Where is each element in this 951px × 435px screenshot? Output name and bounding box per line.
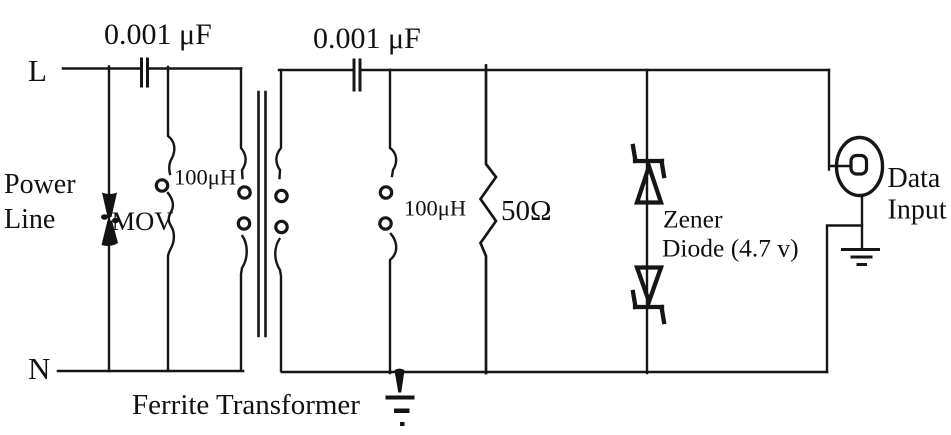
wire top-left rail left segment [63,67,140,70]
svg-text:DataInput: DataInput [888,163,947,226]
wire riser from top rail to connector [829,70,851,170]
zener diode D2 (bottom) [633,268,664,323]
svg-text:100μH: 100μH [404,196,466,221]
varistor MOV symbol [101,193,119,246]
transformer T1 secondary winding [275,70,287,371]
svg-text:N: N [28,351,50,386]
wire MOV branch [108,67,110,372]
connector J1 center contact [851,156,867,175]
transformer T1 core [259,92,266,336]
transformer T1 primary winding [238,69,250,371]
wire bottom-right rail [282,371,827,374]
svg-text:50Ω: 50Ω [501,195,552,227]
wire zener branch [646,70,648,373]
zener diode D1 (top) [633,146,664,203]
wire bottom-left rail [58,370,243,373]
wire top-right rail left segment [279,69,352,72]
ground at data input [843,250,879,265]
wire top-left rail right segment [149,67,241,70]
svg-text:L: L [28,53,47,88]
connector J1 outer shell [837,138,883,196]
wire bottom riser to ground junction [827,226,862,373]
wire top-right rail right segment [362,69,829,72]
capacitor C2 plates [354,60,360,90]
svg-text:Ferrite Transformer: Ferrite Transformer [132,389,360,421]
inductor L2 coil [380,70,396,373]
capacitor C1 plates [142,59,148,86]
svg-text:ZenerDiode (4.7 v): ZenerDiode (4.7 v) [662,205,799,263]
svg-text:0.001 μF: 0.001 μF [313,22,421,55]
svg-text:0.001 μF: 0.001 μF [104,18,212,51]
ground below L2 [386,369,415,426]
svg-text:PowerLine: PowerLine [4,169,76,235]
svg-text:100μH: 100μH [174,165,236,190]
svg-text:MOV: MOV [112,206,174,236]
wire connector shield to ground [861,196,863,250]
inductor L1 coil [156,67,174,371]
resistor R1 zigzag [481,66,497,374]
